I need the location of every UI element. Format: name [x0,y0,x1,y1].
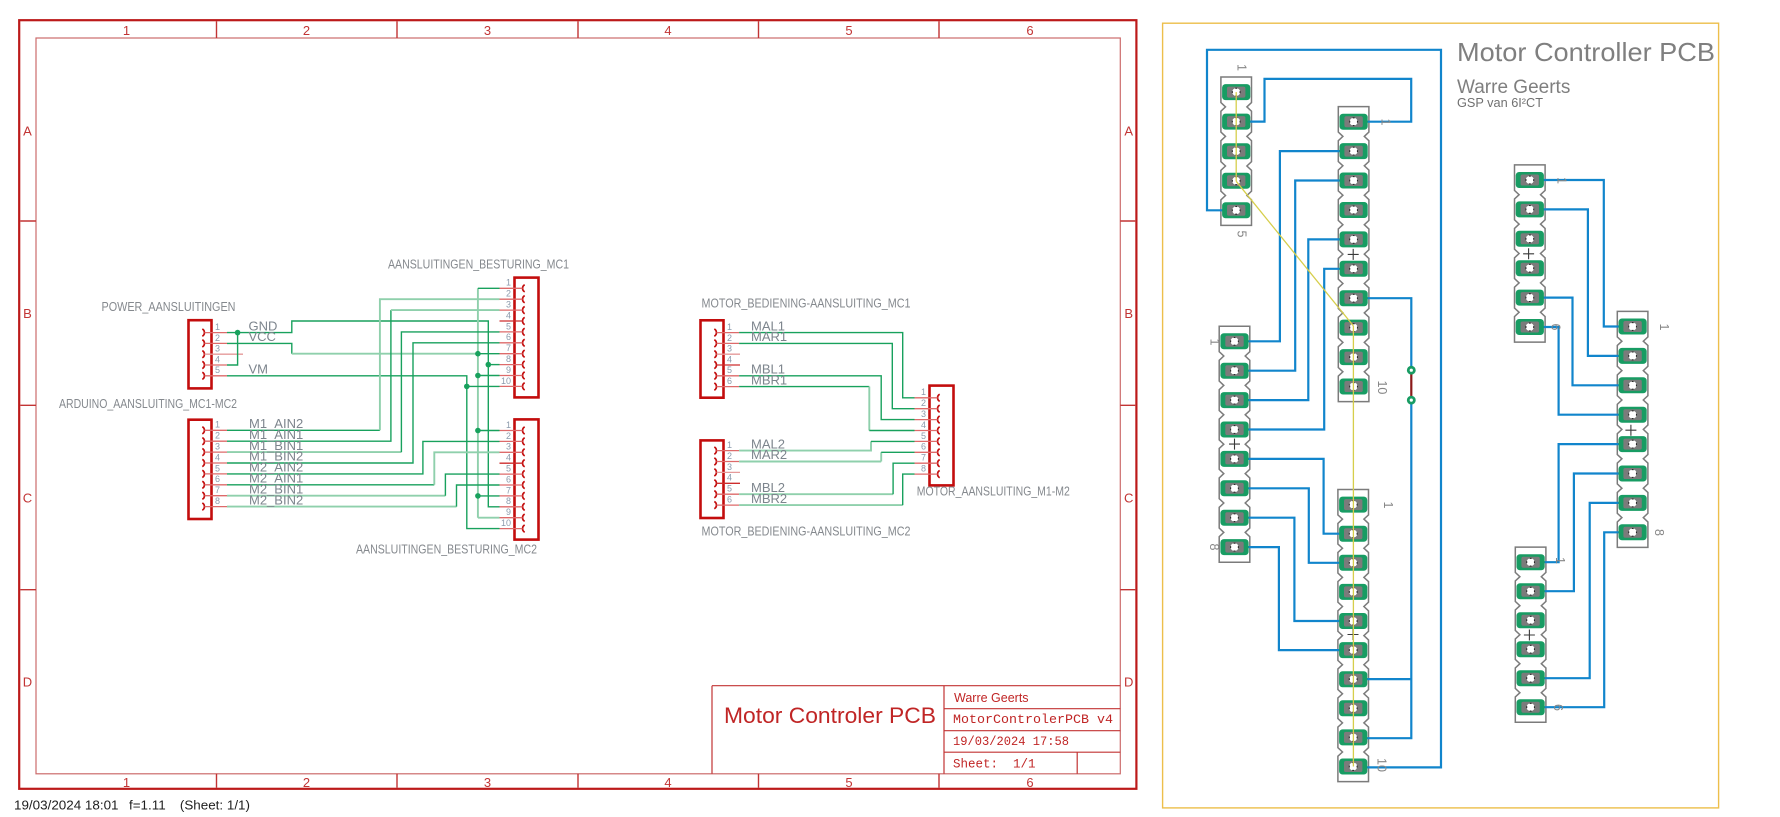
svg-text:C: C [23,490,32,505]
svg-text:2: 2 [303,775,310,790]
svg-text:1: 1 [123,23,130,38]
svg-text:4: 4 [664,775,671,790]
wire MAR2 horizontal [739,461,881,463]
connector POWER pin numbers [215,322,220,375]
trace B6 to C4 [1235,269,1354,430]
junction VCC at MC2.1 [475,428,481,434]
wire VCC from POWER.2 [227,343,292,353]
origin cross header F [1625,425,1636,436]
svg-text:8: 8 [506,496,511,506]
svg-text:5: 5 [845,775,852,790]
svg-text:A: A [23,124,32,139]
svg-text:6: 6 [727,495,732,505]
svg-text:3: 3 [484,775,491,790]
frame outer border [19,20,1136,789]
wire MAL2 run [739,441,871,450]
svg-text:MBR1: MBR1 [751,372,787,387]
svg-text:1: 1 [1553,557,1567,564]
svg-text:1: 1 [1381,502,1395,509]
pin header A outline [1221,77,1252,225]
svg-text:1/1: 1/1 [1013,758,1036,772]
origin cross header E [1523,248,1534,259]
svg-text:Sheet:: Sheet: [953,758,998,772]
pin header C outline [1219,326,1250,562]
svg-text:Warre Geerts: Warre Geerts [954,691,1029,705]
svg-text:ARDUINO_AANSLUITING_MC1-MC2: ARDUINO_AANSLUITING_MC1-MC2 [59,396,237,411]
connector MOT pin numbers [921,387,926,473]
svg-text:2: 2 [215,333,220,343]
svg-text:2: 2 [506,431,511,441]
wire VCC to MC1.7 [478,353,500,355]
svg-text:1: 1 [123,775,130,790]
svg-text:3: 3 [506,300,511,310]
svg-text:6: 6 [506,474,511,484]
svg-text:AANSLUITINGEN_BESTURING_MC2: AANSLUITINGEN_BESTURING_MC2 [356,542,537,557]
wire MBR2 riser [903,474,915,505]
junction GND at MC1.8 [486,362,492,368]
pin header B pads [1340,114,1368,395]
connector MC2 body [515,419,539,539]
svg-text:5: 5 [1235,231,1249,238]
svg-text:5: 5 [506,464,511,474]
svg-text:Motor Controller PCB: Motor Controller PCB [1457,37,1715,67]
trace A2 to B1 [1236,79,1411,122]
wire MAL1 run [739,333,914,398]
connector ARD pin numbers [215,420,220,506]
svg-text:2: 2 [727,451,732,461]
svg-text:1: 1 [1235,64,1249,71]
wire VCC to MC1.1 [478,287,500,289]
svg-text:8: 8 [921,464,926,474]
wire M2_BIN1 horizontal [227,495,445,497]
airwire A1-A4 [1235,92,1237,181]
svg-text:10: 10 [1375,758,1389,772]
frame inner border [36,38,1120,774]
trace C6 to D3 [1235,488,1354,563]
connector BED1 body [701,320,724,397]
connector MOT body [930,386,954,486]
connector POWER body [189,320,212,388]
connector BED2 pin stubs [717,450,740,452]
trace C5 to D2 [1235,459,1354,534]
wire GND to MC1.8 [488,364,499,366]
svg-text:1: 1 [921,387,926,397]
wire GND down to MC2.8 [488,365,499,507]
connector BED2 pin numbers [727,440,732,505]
frame column labels top [123,23,1034,38]
svg-text:3: 3 [215,344,220,354]
pin header E pads [1516,172,1544,335]
svg-text:MotorControlerPCB v4: MotorControlerPCB v4 [953,712,1113,727]
svg-text:Motor Controler PCB: Motor Controler PCB [724,703,936,728]
svg-text:Warre Geerts: Warre Geerts [1457,77,1570,98]
connector BED1 pin arcs [714,329,716,390]
frame row labels right [1124,124,1133,690]
svg-text:GSP van 6I²CT: GSP van 6I²CT [1457,96,1543,110]
svg-text:D: D [23,675,32,690]
svg-text:6: 6 [1026,23,1033,38]
svg-text:1: 1 [727,440,732,450]
svg-text:MOTOR_BEDIENING-AANSLUITING_MC: MOTOR_BEDIENING-AANSLUITING_MC2 [702,524,911,539]
connector ARD pin arcs [202,427,204,511]
pin header G pads [1517,554,1545,715]
svg-text:POWER_AANSLUITINGEN: POWER_AANSLUITINGEN [102,299,236,314]
svg-text:4: 4 [506,310,511,320]
pin header A pads [1222,84,1250,218]
svg-text:6: 6 [921,442,926,452]
svg-text:MAR1: MAR1 [751,329,787,344]
connector BED2 pin arcs [714,447,716,509]
svg-text:6: 6 [727,376,732,386]
wire VCC to MC2.9 [478,517,500,519]
svg-text:8: 8 [1207,544,1221,551]
wire MAR2 entry [881,451,914,453]
pin header G outline [1515,547,1546,722]
wire MBR1 horizontal [739,386,869,388]
svg-text:6: 6 [1551,704,1565,711]
svg-text:3: 3 [484,23,491,38]
trace via to D9 [1353,400,1411,738]
connector MC1 pin stubs [500,287,523,289]
svg-text:1: 1 [1555,177,1569,184]
svg-text:19/03/2024 17:58: 19/03/2024 17:58 [953,735,1069,749]
wire MBL1 run [739,376,914,420]
svg-text:5: 5 [845,23,852,38]
pin header B outline [1338,107,1369,402]
svg-text:7: 7 [921,453,926,463]
connector MC2 pin arcs [523,427,525,532]
connector BED1 pin stubs [717,332,740,334]
wire M2_AIN1 horizontal [227,484,434,486]
svg-text:1: 1 [1208,339,1222,346]
junction GND at POWER.1 [235,330,241,336]
svg-text:6: 6 [1549,324,1563,331]
wire M1_BIN1 horizontal [227,451,401,453]
svg-text:2: 2 [921,398,926,408]
wire GND POWER.1 run [227,321,488,365]
via bottom [1407,396,1416,405]
svg-text:5: 5 [506,321,511,331]
connector BED1 pin numbers [727,322,732,386]
frame row tick marks [20,221,1135,590]
wire MAR2 riser [880,452,882,461]
frame row labels left [23,124,32,690]
connector MOT pin stubs [915,397,938,399]
wire MBR2 horizontal [739,504,903,506]
connector MC2 pin stubs [500,430,523,432]
svg-text:10: 10 [1375,380,1389,394]
svg-text:C: C [1124,490,1133,505]
wire VCC to MC2.7 [478,495,500,497]
svg-text:B: B [1124,306,1133,321]
svg-text:AANSLUITINGEN_BESTURING_MC1: AANSLUITINGEN_BESTURING_MC1 [388,256,569,271]
wire M1_BIN2 run [227,343,500,463]
svg-text:1: 1 [215,420,220,430]
pin header D pads [1339,497,1367,775]
svg-text:MOTOR_BEDIENING-AANSLUITING_MC: MOTOR_BEDIENING-AANSLUITING_MC1 [702,296,911,311]
junction VCC at MC1.7 [475,351,481,357]
connector POWER pin stubs [205,332,228,334]
trace B7 to via [1354,298,1412,370]
svg-text:2: 2 [727,333,732,343]
origin cross header B [1348,249,1359,260]
svg-text:3: 3 [921,409,926,419]
svg-text:4: 4 [727,473,732,483]
trace E2 to F2 [1530,209,1633,356]
svg-text:2: 2 [506,289,511,299]
svg-text:1: 1 [215,322,220,332]
pin header D outline [1338,490,1369,782]
svg-text:2: 2 [303,23,310,38]
svg-text:2: 2 [215,431,220,441]
svg-text:8: 8 [506,354,511,364]
wire MAL2 entry [871,440,915,442]
airwire B8-D10 [1352,326,1354,767]
airwire A4-B8 diagonal [1236,181,1353,326]
svg-text:MAR2: MAR2 [751,447,787,462]
svg-text:4: 4 [727,354,732,364]
trace A5 to D10 [1207,50,1441,768]
trace branch to D7 [1353,678,1411,680]
pin header C pads [1220,333,1248,555]
connector MOT pin arcs [938,394,940,478]
trace E1 to F1 [1530,180,1633,327]
wire M2_BIN2 riser [457,485,500,507]
svg-text:3: 3 [215,442,220,452]
wire MBR1 riser [868,387,870,431]
trace C8 to D6 [1235,547,1354,650]
wire VCC to MC1.9 [478,375,500,377]
svg-text:5: 5 [215,463,220,473]
svg-text:7: 7 [506,343,511,353]
svg-text:4: 4 [215,354,220,364]
svg-text:8: 8 [1652,529,1666,536]
connector BED2 body [701,440,724,518]
svg-text:3: 3 [506,442,511,452]
wire VM down to MC2.10 [467,386,500,528]
wire M2_AIN1 riser [434,452,499,485]
svg-text:5: 5 [727,365,732,375]
svg-text:10: 10 [501,376,511,386]
wire MBL2 riser [893,463,914,494]
trace F7 to G5 [1531,503,1633,678]
trace F6 to G2 [1531,474,1633,592]
wire VCC trunk vertical [477,288,479,517]
svg-text:VCC: VCC [249,329,276,344]
svg-text:4: 4 [506,453,511,463]
svg-text:MBR2: MBR2 [751,491,787,506]
connector POWER pin arcs [202,329,204,379]
junction VCC at MC1.9 [475,373,481,379]
wire M1_AIN1 to MC1.3 [391,309,500,311]
connector ARD body [189,420,212,519]
svg-text:VM: VM [249,362,269,377]
trace B5 to C3 [1235,239,1354,400]
trace B3 to C2 [1235,181,1354,371]
svg-text:1: 1 [506,278,511,288]
wire VCC to MC2.1 [478,430,500,432]
connector MC1 pin numbers [501,278,511,386]
connector MC1 pin arcs [523,285,525,390]
junction VM at MC1.10 [464,384,470,390]
svg-text:6: 6 [215,474,220,484]
wire M1_AIN1 horizontal [227,310,391,441]
svg-text:A: A [1124,124,1133,139]
trace B2 to C1 [1235,151,1354,341]
wire VM to MC1.10 [467,385,500,387]
svg-text:1: 1 [727,322,732,332]
junction VCC at MC2.7 [475,493,481,499]
wire VCC long horizontal [292,353,478,355]
svg-text:5: 5 [215,365,220,375]
pin header F outline [1617,311,1648,547]
svg-text:D: D [1124,675,1133,690]
wire M1_AIN2 riser [380,299,500,430]
svg-text:6: 6 [1026,775,1033,790]
trace F8 to G6 [1531,532,1633,707]
connector MC1 body [515,278,539,398]
wire M1_BIN1 riser [401,332,499,452]
trace E6 to F4 [1530,327,1633,415]
wire M1_AIN2 horizontal [227,429,380,431]
svg-text:5: 5 [727,484,732,494]
svg-text:7: 7 [506,485,511,495]
wire VM from POWER.5 [227,376,467,387]
frame column labels bottom [123,775,1034,790]
svg-text:8: 8 [215,496,220,506]
title block border [712,686,1120,774]
svg-text:M2_BIN2: M2_BIN2 [249,492,303,507]
svg-text:6: 6 [506,332,511,342]
trace F5 to G1 [1531,444,1633,562]
svg-text:19/03/2024 18:01 f=1.11 (Sh: 19/03/2024 18:01 f=1.11 (Sheet: 1/1) [14,798,250,813]
svg-text:4: 4 [215,452,220,462]
wire MAR1 run [739,343,914,408]
PCB board outline (yellow) [1163,23,1719,808]
svg-text:B: B [23,306,32,321]
wire MBL2 horizontal [739,493,893,495]
frame column tick marks [217,21,940,787]
svg-text:4: 4 [921,420,926,430]
pin header F pads [1619,319,1647,541]
origin cross header G [1524,630,1535,641]
svg-text:4: 4 [664,23,671,38]
svg-text:3: 3 [727,462,732,472]
svg-text:MOTOR_AANSLUITING_M1-M2: MOTOR_AANSLUITING_M1-M2 [917,484,1070,499]
wire M2_BIN1 riser [445,474,499,496]
connector ARD pin stubs [205,429,228,431]
svg-text:5: 5 [921,431,926,441]
wire GND branch to POWER.4 [227,333,238,365]
svg-text:1: 1 [1657,324,1671,331]
wire M2_AIN2 run [227,441,500,474]
svg-text:9: 9 [506,507,511,517]
origin cross header C [1229,439,1240,450]
svg-text:10: 10 [501,518,511,528]
svg-text:7: 7 [215,485,220,495]
trace red inner layer between vias [1410,370,1412,400]
via top [1407,366,1416,375]
svg-text:1: 1 [506,420,511,430]
trace C7 to D5 [1235,518,1354,621]
trace E5 to F3 [1530,298,1633,386]
wire M2_BIN2 horizontal [227,506,457,508]
pin header E outline [1515,165,1546,342]
connector MC2 pin numbers [501,420,511,528]
svg-text:3: 3 [727,344,732,354]
svg-text:9: 9 [506,365,511,375]
origin cross header D [1348,629,1359,640]
svg-text:1: 1 [1379,119,1393,126]
wire MBR1 entry [869,430,914,432]
